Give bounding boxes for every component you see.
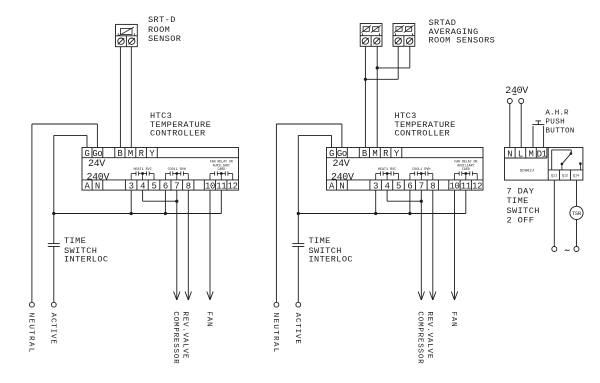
svg-text:7 DAY: 7 DAY [507,186,535,196]
svg-text:TIME: TIME [507,196,529,206]
svg-text:B: B [362,149,367,159]
svg-text:Q11: Q11 [551,174,557,178]
svg-text:INTERLOC: INTERLOC [309,255,353,265]
svg-text:M: M [528,149,533,159]
svg-text:240V: 240V [505,86,528,97]
svg-text:ACTIVE: ACTIVE [293,313,301,345]
svg-text:A.H.R: A.H.R [545,110,569,118]
svg-text:M: M [128,149,133,159]
svg-text:PUSH: PUSH [545,119,565,127]
svg-text:24V: 24V [88,159,105,170]
svg-text:COOL1 RVH: COOL1 RVH [168,168,186,172]
svg-text:TIME: TIME [309,236,331,246]
svg-text:FAN: FAN [449,311,457,327]
svg-text:12: 12 [472,182,482,192]
svg-text:COOL1 RVH: COOL1 RVH [412,168,430,172]
svg-text:5: 5 [151,182,156,192]
svg-text:FAN: FAN [205,311,213,327]
svg-text:CONTROLLER: CONTROLLER [395,129,451,139]
svg-text:Go: Go [337,149,347,159]
svg-text:24V: 24V [333,159,350,170]
svg-text:COMPRESSOR: COMPRESSOR [171,311,179,364]
svg-text:BUTTON: BUTTON [545,128,574,136]
svg-text:Q14: Q14 [573,174,579,178]
svg-text:REV.VALVE: REV.VALVE [181,311,189,359]
svg-text:M: M [372,149,377,159]
svg-text:12: 12 [228,182,238,192]
svg-text:240V: 240V [87,172,110,183]
svg-text:HEAT1 RVC: HEAT1 RVC [133,168,151,172]
svg-text:240V: 240V [331,172,354,183]
svg-text:SENSOR: SENSOR [148,34,181,44]
svg-text:D1: D1 [537,149,547,159]
svg-text:ROOM SENSORS: ROOM SENSORS [429,36,496,46]
svg-text:N: N [507,149,512,159]
svg-text:Q12: Q12 [562,174,568,178]
svg-text:ACTIVE: ACTIVE [48,313,56,345]
svg-text:HEAT1 RVC: HEAT1 RVC [378,168,396,172]
svg-text:G: G [84,149,89,159]
svg-text:SDH62J: SDH62J [520,170,534,174]
svg-text:L: L [518,149,523,159]
svg-text:2 OFF: 2 OFF [507,216,535,226]
svg-text:COMPRESSOR: COMPRESSOR [416,311,424,364]
svg-text:SRT-D: SRT-D [148,15,176,25]
svg-text:REV.VALVE: REV.VALVE [425,311,433,359]
svg-text:Go: Go [92,149,102,159]
svg-text:B: B [117,149,122,159]
svg-text:TIME: TIME [64,236,86,246]
svg-text:CARD: CARD [217,167,225,171]
svg-text:NEUTRAL: NEUTRAL [27,313,35,354]
svg-text:TSR: TSR [572,211,581,217]
svg-text:G: G [329,149,334,159]
svg-text:NEUTRAL: NEUTRAL [271,313,279,354]
svg-text:CONTROLLER: CONTROLLER [150,129,206,139]
svg-text:5: 5 [396,182,401,192]
svg-text:SWITCH: SWITCH [507,206,540,216]
svg-text:INTERLOC: INTERLOC [64,255,108,265]
svg-text:CARD: CARD [462,167,470,171]
